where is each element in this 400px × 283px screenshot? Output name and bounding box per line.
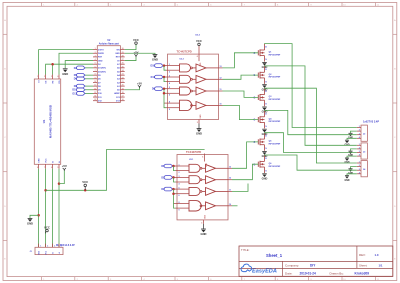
wire Q6 drain to connector J pin [265, 155, 357, 170]
wire Q3 drain to connector J pin [265, 88, 357, 163]
junction GND branch [37, 214, 40, 217]
wire VCC net to U4 VDD [46, 150, 205, 191]
svg-text:D11: D11 [73, 92, 78, 95]
svg-text:Drawn By:: Drawn By: [330, 271, 344, 275]
wire D3 input tie [174, 189, 176, 194]
svg-text:5: 5 [169, 87, 170, 89]
svg-text:IRF1010PBF: IRF1010PBF [269, 121, 281, 123]
connector J4 [357, 161, 368, 177]
svg-text:Sheet_1: Sheet_1 [266, 253, 283, 258]
junction RE/DE tie [51, 63, 54, 66]
wire Q5 drain to connector J pin [265, 133, 357, 153]
svg-text:1: 1 [359, 144, 360, 146]
svg-text:Arduino Nano part: Arduino Nano part [99, 42, 119, 45]
wire U3 out1 to Q1 gate [223, 53, 259, 68]
net flag D11 at U3.2 input [162, 76, 165, 78]
svg-text:3: 3 [179, 176, 180, 178]
svg-text:22: 22 [122, 77, 124, 79]
svg-text:1: 1 [169, 64, 170, 66]
svg-text:4: 4 [57, 75, 58, 78]
svg-text:6: 6 [179, 195, 180, 197]
svg-text:6: 6 [95, 66, 96, 68]
svg-text:11: 11 [229, 189, 231, 191]
ic U3 TC4427CPD gate driver [151, 50, 223, 129]
net flag D3 at U2 pin [85, 67, 93, 69]
ic U4 TC4427CPD gate driver [161, 150, 232, 229]
svg-text:D0/RX: D0/RX [98, 53, 105, 55]
svg-text:1.0: 1.0 [375, 253, 379, 257]
svg-text:30: 30 [122, 48, 124, 50]
svg-text:GND: GND [115, 53, 120, 55]
svg-text:1/1: 1/1 [379, 264, 383, 268]
ground at J3 pin4 [345, 157, 349, 159]
svg-text:2: 2 [95, 52, 96, 54]
svg-text:12: 12 [229, 178, 231, 180]
svg-text:D10: D10 [72, 89, 77, 92]
svg-text:+5V: +5V [137, 82, 142, 86]
svg-text:D10: D10 [151, 65, 156, 68]
svg-text:6: 6 [51, 167, 52, 169]
svg-text:D3 (INT): D3 (INT) [98, 68, 106, 70]
ground at Q3 source [262, 106, 267, 108]
svg-text:VCC: VCC [82, 180, 88, 184]
svg-text:1: 1 [37, 76, 38, 78]
svg-text:27: 27 [122, 59, 124, 61]
svg-text:7: 7 [95, 70, 96, 72]
wire D6 input tie [174, 166, 176, 171]
ground at J4 pin4 [345, 175, 349, 177]
junction row3/row4 tie [163, 92, 166, 95]
svg-text:4: 4 [359, 171, 360, 174]
svg-text:3: 3 [197, 122, 198, 124]
svg-text:24: 24 [122, 69, 124, 72]
svg-text:2: 2 [44, 76, 45, 78]
transistor Q4 IRF1010PBF [254, 111, 282, 129]
wire U4 out1 to Q5 gate [232, 142, 258, 168]
svg-text:TC4427CPD: TC4427CPD [177, 50, 192, 54]
net flag D6 at U2 pin [85, 78, 93, 80]
wire +5V flag jog [59, 170, 64, 184]
svg-text:GND: GND [98, 60, 103, 62]
wire D11 input tie [164, 77, 166, 82]
svg-text:12: 12 [94, 88, 96, 90]
svg-text:28: 28 [122, 55, 124, 57]
ground at Q4 source [262, 128, 267, 130]
svg-text:D11: D11 [151, 76, 156, 79]
svg-text:GND: GND [196, 132, 202, 136]
svg-text:GND: GND [262, 177, 268, 181]
ground at J4 pin2 [348, 168, 352, 170]
svg-text:IRF1010PBF: IRF1010PBF [269, 99, 281, 101]
svg-text:13: 13 [220, 66, 222, 68]
wire U4 out2 to Q6 gate [232, 164, 258, 180]
wire U1.A down to J1 pin4 [58, 169, 60, 248]
junction D11 tie [163, 76, 166, 79]
ground at J1 area [28, 217, 33, 219]
svg-text:1x02TV3 3.4P: 1x02TV3 3.4P [363, 120, 379, 123]
junction VCC flag tap [84, 189, 87, 192]
svg-text:8: 8 [95, 74, 96, 76]
wire U1.GND to J1 pin1 [38, 169, 40, 248]
wire U3 out4 to Q4 gate [223, 105, 259, 119]
wire U2.5V to +5V [125, 56, 136, 60]
wire net GND: U2.GND pin to ground [65, 61, 93, 69]
net flag D6 at U3.1 input [172, 165, 175, 167]
EasyEDA logo [241, 264, 277, 275]
svg-text:6: 6 [202, 156, 203, 158]
svg-text:GND: GND [205, 214, 207, 219]
svg-text:2: 2 [47, 246, 48, 248]
net flag D5 at U2 pin [85, 74, 93, 76]
wire J4 pin4 to ground [347, 174, 357, 176]
wire U3 out2 to Q2 gate [223, 75, 259, 79]
svg-text:26: 26 [122, 63, 124, 65]
svg-text:3: 3 [95, 55, 96, 57]
svg-text:U1: U1 [42, 119, 46, 123]
svg-text:8: 8 [37, 167, 38, 169]
svg-text:1: 1 [359, 126, 360, 128]
transistor Q6 IRF1010PBF [254, 155, 282, 173]
svg-text:4: 4 [169, 82, 170, 85]
svg-text:4: 4 [359, 154, 360, 157]
svg-text:9: 9 [169, 109, 170, 111]
svg-text:RO: RO [59, 80, 61, 83]
svg-text:1: 1 [359, 162, 360, 164]
svg-text:5: 5 [57, 167, 58, 169]
transistor Q3 IRF1010PBF [254, 89, 282, 107]
svg-text:10: 10 [94, 81, 96, 83]
svg-text:19: 19 [122, 88, 124, 90]
svg-text:+5V: +5V [133, 50, 138, 54]
svg-text:2019-01-24: 2019-01-24 [300, 271, 317, 275]
title block [239, 246, 393, 276]
ground at Q1 source [262, 61, 267, 63]
svg-text:+5V: +5V [62, 164, 67, 168]
svg-text:1: 1 [95, 48, 96, 50]
connector J1 RS485 output [29, 244, 75, 255]
svg-text:5: 5 [95, 63, 96, 65]
svg-text:GND: GND [27, 221, 33, 225]
svg-text:1: 1 [40, 246, 41, 248]
svg-text:2: 2 [359, 148, 360, 150]
svg-text:G: G [254, 164, 256, 166]
svg-text:25: 25 [122, 66, 124, 68]
ic U2 Arduino Nano part [93, 39, 125, 102]
svg-text:20: 20 [122, 85, 124, 87]
svg-text:U3.2: U3.2 [195, 34, 200, 36]
wire U2.A0 to +5V [125, 87, 140, 89]
svg-text:EasyEDA: EasyEDA [252, 269, 277, 275]
ground at Q5 source [262, 151, 267, 153]
svg-text:2: 2 [359, 165, 360, 167]
svg-text:13: 13 [229, 166, 231, 168]
ground below U4 [201, 228, 206, 230]
svg-text:4: 4 [179, 182, 180, 185]
svg-text:10: 10 [220, 103, 222, 105]
junction D3 tie [172, 188, 175, 191]
junction D9 tie [163, 87, 166, 90]
svg-text:3: 3 [169, 76, 170, 78]
svg-text:TITLE:: TITLE: [241, 248, 250, 252]
svg-text:6: 6 [197, 56, 198, 58]
wire D5 input tie [174, 177, 176, 182]
net flag D9 at U3.2 input [162, 88, 165, 90]
connector J2 [357, 125, 368, 141]
wire J2 pin4 to ground [347, 138, 357, 140]
net flag D5 at U3.1 input [172, 176, 175, 178]
svg-text:4: 4 [359, 136, 360, 139]
svg-text:16: 16 [122, 99, 124, 101]
wire U4 out4 stub [232, 205, 238, 207]
svg-text:GND: GND [38, 158, 40, 163]
svg-text:7: 7 [44, 167, 45, 169]
svg-text:17: 17 [122, 96, 124, 98]
svg-text:MAX485 TTL=RS485 MOD: MAX485 TTL=RS485 MOD [49, 105, 53, 138]
connector J3 [357, 143, 368, 159]
svg-text:GND: GND [152, 58, 158, 62]
svg-text:18: 18 [122, 92, 124, 94]
svg-text:29: 29 [122, 52, 124, 54]
net flag D11 at U2 pin [85, 92, 93, 94]
svg-text:IRF1010PBF: IRF1010PBF [269, 54, 281, 56]
svg-text:21: 21 [122, 81, 124, 83]
svg-text:D4 (INT): D4 (INT) [98, 70, 106, 73]
svg-text:15: 15 [94, 99, 96, 101]
svg-text:TC4427CPD: TC4427CPD [186, 150, 201, 154]
svg-text:REV:: REV: [359, 253, 366, 257]
wire J4 pin2 to ground [351, 167, 357, 169]
ground at J3 pin2 [348, 150, 352, 152]
wire row4 input tie [174, 194, 176, 208]
svg-text:9: 9 [179, 210, 180, 212]
ground at U2 right [153, 54, 158, 56]
svg-text:3: 3 [359, 133, 360, 135]
svg-text:8: 8 [179, 202, 180, 204]
svg-text:11: 11 [220, 89, 222, 91]
transistor Q1 IRF1010PBF [254, 44, 282, 62]
svg-text:23: 23 [122, 74, 124, 76]
ground at J2 pin4 [345, 139, 349, 141]
svg-text:3: 3 [359, 169, 360, 171]
wire D10 input tie [164, 66, 166, 71]
net flag D10 at U2 pin [85, 89, 93, 91]
svg-text:4: 4 [95, 58, 96, 61]
wire U1.RE branch [52, 64, 54, 74]
svg-text:1: 1 [179, 165, 180, 167]
ground below U3 [197, 128, 202, 130]
wire ground branch [30, 215, 39, 218]
wire U1.B down to J1 pin3 [52, 169, 54, 248]
junction D10 tie [163, 64, 166, 67]
svg-text:VCC: VCC [44, 225, 50, 229]
svg-text:3: 3 [54, 246, 55, 248]
wire net TX: U2.D1/TX to U1.DI [39, 50, 93, 75]
wire U2.GND to ground [125, 52, 155, 55]
svg-text:9: 9 [95, 77, 96, 79]
wire J3 pin4 to ground [347, 156, 357, 158]
ground at Q6 source [262, 173, 267, 175]
svg-text:Sheet:: Sheet: [359, 264, 368, 268]
svg-text:3: 3 [359, 151, 360, 153]
wire Q4 drain to connector J pin [265, 110, 357, 134]
svg-text:DIY: DIY [310, 264, 316, 268]
net flag D3 at U3.1 input [172, 188, 175, 190]
transistor Q2 IRF1010PBF [254, 66, 282, 84]
svg-text:Company:: Company: [285, 264, 299, 268]
ground at J2 pin2 [348, 132, 352, 134]
ground at Q2 source [262, 84, 267, 86]
wire net D2: U2.D2 to U1.DE and U1.RE [46, 64, 93, 74]
svg-text:6: 6 [169, 95, 170, 97]
module U1 MAX485 TTL to RS485 [34, 75, 61, 169]
svg-text:12: 12 [220, 77, 222, 79]
svg-text:IRF1010PBF: IRF1010PBF [269, 166, 281, 168]
junction row3/row4 tie [172, 192, 175, 195]
wire U1.VCC down to J1 pin2 [45, 169, 47, 248]
svg-text:14: 14 [94, 95, 96, 98]
svg-text:13: 13 [94, 92, 96, 94]
svg-text:GND: GND [38, 250, 40, 255]
svg-text:G: G [254, 142, 256, 144]
svg-text:IRF1010PBF: IRF1010PBF [269, 77, 281, 79]
wire J2 pin2 to ground [351, 131, 357, 133]
junction D5 tie [172, 176, 175, 179]
svg-text:VCC: VCC [133, 38, 139, 42]
ground at U2 left GND [63, 68, 68, 70]
svg-text:2: 2 [179, 172, 180, 174]
svg-text:GND: GND [201, 232, 207, 236]
svg-text:GND: GND [200, 114, 202, 119]
wire J3 pin2 to ground [351, 149, 357, 151]
wire Q1 drain to connector J pin [265, 44, 357, 128]
svg-text:IRF1010PBF: IRF1010PBF [269, 144, 281, 146]
junction D6 tie [172, 165, 175, 168]
net flag D10 at U3.2 input [162, 65, 165, 67]
svg-text:8: 8 [169, 102, 170, 104]
wire row4 input tie [164, 93, 166, 107]
svg-text:GND: GND [62, 72, 68, 76]
svg-text:5: 5 [179, 188, 180, 190]
svg-text:VCC: VCC [45, 158, 47, 163]
transistor Q5 IRF1010PBF [254, 133, 282, 151]
svg-text:10: 10 [229, 204, 231, 206]
wire U2.VIN to VCC [125, 45, 136, 50]
svg-text:D1/TX: D1/TX [98, 49, 104, 51]
svg-text:VCC: VCC [196, 39, 202, 43]
wire D9 input tie [164, 89, 166, 94]
svg-text:11: 11 [94, 85, 96, 87]
svg-text:VIN: VIN [116, 49, 120, 51]
wire Q2 drain to connector J pin [265, 66, 357, 145]
svg-text:Date:: Date: [285, 271, 293, 275]
svg-text:2: 2 [359, 130, 360, 132]
junction +5V tap [58, 182, 61, 185]
svg-text:GND: GND [344, 180, 349, 182]
svg-text:Kroko309: Kroko309 [355, 271, 370, 275]
svg-text:3: 3 [51, 76, 52, 78]
net flag D9 at U2 pin [85, 85, 93, 87]
wire U4 out3 stub [232, 184, 248, 192]
svg-text:2: 2 [169, 72, 170, 74]
junction VCC net [44, 189, 47, 192]
svg-text:AREF: AREF [114, 92, 120, 95]
wire U3 out3 to Q3 gate [223, 91, 259, 97]
wire net RX: U2.D0/RX to U1.RO [59, 53, 93, 74]
svg-text:3: 3 [201, 222, 202, 224]
